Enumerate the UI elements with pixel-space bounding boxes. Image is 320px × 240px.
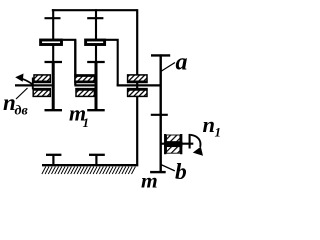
bearing tick on V2 (87, 17, 103, 19)
rod from nut1 (74, 40, 76, 85)
rotation arrow n_dv (32, 78, 34, 90)
svg-text:b: b (175, 159, 187, 185)
bearing 3 lower (127, 89, 148, 97)
shaft 3 (117, 84, 161, 86)
output shaft (161, 143, 194, 145)
ground hatching (42, 167, 135, 174)
bracket nut1 to rod1 (63, 40, 75, 76)
rod V3 (136, 9, 138, 164)
output vertical shaft (159, 54, 161, 172)
gear G1 bar (52, 62, 55, 110)
gear G2 bar (95, 62, 98, 110)
bearing 2 lower (75, 89, 94, 97)
nut on screw V2 (86, 40, 105, 45)
bearing tick on V1 (45, 17, 61, 19)
bearing 2 upper (74, 75, 94, 83)
frame top traverse (52, 9, 138, 11)
svg-text:дв: дв (15, 104, 29, 119)
rotation arrow n1 (189, 134, 191, 149)
svg-text:1: 1 (83, 115, 90, 130)
svg-text:1: 1 (215, 125, 222, 140)
gear a cap (151, 54, 170, 56)
support under V2 (89, 155, 105, 165)
svg-text:п: п (203, 112, 216, 137)
bearing 1 lower (33, 89, 51, 97)
bearing tick on output shaft (151, 114, 168, 116)
leader n_dv (16, 88, 28, 99)
bearing 4 lower (164, 146, 183, 155)
bracket nut2 to rod2 (106, 40, 118, 87)
ground line (42, 164, 138, 166)
gear b cap (150, 171, 166, 173)
nut on screw V1 (41, 40, 62, 45)
screw V1 (52, 9, 54, 62)
bearing 4 upper (164, 134, 183, 143)
bearing 3 upper (127, 75, 148, 83)
leader to b (161, 165, 175, 171)
svg-text:a: a (176, 49, 188, 75)
screw V2 (95, 9, 97, 62)
svg-text:m: m (141, 169, 158, 190)
support under V1 (46, 155, 61, 165)
bearing 1 upper (33, 75, 50, 83)
shaft 2 (74, 84, 94, 86)
leader to a (161, 63, 175, 72)
input shaft (15, 84, 52, 86)
